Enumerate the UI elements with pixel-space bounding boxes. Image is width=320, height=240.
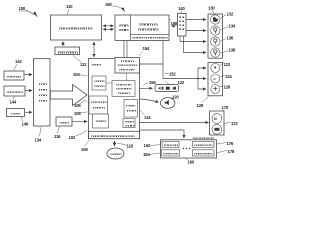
svg-text:100: 100 — [19, 6, 26, 11]
box: mem ctrl — [89, 96, 108, 114]
wire: display-dsp double arrow — [93, 42, 95, 57]
box: usb — [56, 117, 72, 126]
box: left input 2 — [4, 86, 25, 96]
svg-text:mn mnm mn: mn mnm mn — [193, 137, 215, 140]
label 172 — [225, 121, 239, 126]
svg-text:mn mn: mn mn — [119, 69, 136, 72]
label 110 — [66, 4, 73, 15]
svg-text:144: 144 — [10, 100, 17, 105]
label under tall box — [35, 127, 42, 143]
label 170 — [222, 105, 229, 112]
label 104 block arrow — [73, 72, 88, 77]
svg-text:110: 110 — [66, 4, 73, 9]
box: 2b — [124, 100, 138, 118]
svg-text:142: 142 — [15, 59, 22, 64]
wires hdmi-memory — [123, 41, 125, 58]
svg-text:112: 112 — [80, 62, 87, 67]
label 102 — [69, 131, 88, 141]
svg-text:mn mn: mn mn — [116, 84, 133, 87]
wire: strip-battery double arrow — [114, 141, 116, 146]
svg-text:114: 114 — [144, 115, 151, 120]
svg-text:mn mnm mn m: mn mnm mn m — [59, 27, 93, 31]
box: hdmi block — [115, 15, 169, 41]
svg-text:154: 154 — [143, 46, 150, 51]
labels 132-138 — [221, 12, 234, 19]
label 152 — [165, 72, 177, 77]
svg-text:172: 172 — [231, 121, 238, 126]
wire: a/d to audio sub — [106, 82, 112, 84]
box: left input 1 — [4, 71, 24, 80]
svg-text:150: 150 — [105, 2, 112, 7]
label 130 — [208, 6, 215, 14]
svg-text:136: 136 — [227, 36, 234, 41]
box: left input 3 — [7, 109, 25, 117]
svg-text:134: 134 — [229, 24, 236, 29]
svg-text:mnm n: mnm n — [139, 23, 158, 27]
svg-text:mnm mn mnm: mnm mn mnm — [132, 37, 169, 40]
box: external memory — [115, 58, 140, 74]
svg-text:140: 140 — [178, 6, 185, 11]
svg-text:164: 164 — [143, 152, 150, 157]
svg-text:mn: mn — [119, 24, 129, 28]
svg-text:170: 170 — [222, 105, 229, 110]
svg-text:132: 132 — [227, 12, 234, 17]
svg-text:mnm mn: mnm mn — [163, 153, 179, 156]
svg-text:160: 160 — [188, 160, 195, 165]
label 160 — [186, 158, 195, 164]
box: audio 2a — [112, 81, 135, 97]
label near media box top-right — [176, 80, 185, 87]
svg-text:152: 152 — [169, 72, 176, 77]
svg-text:126: 126 — [224, 85, 231, 90]
svg-text:120: 120 — [172, 95, 179, 100]
svg-text:mnm mn: mnm mn — [194, 144, 214, 147]
label 156 — [143, 80, 156, 86]
svg-text:178: 178 — [228, 149, 235, 154]
labels 162 164 — [144, 143, 161, 148]
wire: dsp to camera box C — [140, 122, 209, 124]
box: connector 140 — [178, 14, 187, 37]
box B: 3 circles — [208, 63, 223, 96]
label 146 — [21, 117, 29, 127]
svg-text:M: M — [214, 117, 217, 121]
wire: dsp to media box — [140, 87, 153, 89]
svg-text:mn mn: mn mn — [91, 101, 108, 104]
box: mcu — [93, 114, 109, 128]
svg-text:138: 138 — [229, 48, 236, 53]
svg-text:m mnm: m mnm — [116, 88, 133, 91]
box: DSP main — [89, 59, 140, 139]
svg-text:HI: HI — [213, 77, 216, 81]
label 154 memory — [139, 46, 150, 56]
svg-text:108: 108 — [81, 147, 88, 152]
svg-text:158: 158 — [171, 21, 178, 26]
svg-text:162: 162 — [144, 143, 151, 148]
labels 106 pair — [74, 100, 88, 108]
label 100 with pointer arrow — [19, 6, 38, 18]
box: touch panel — [55, 47, 80, 55]
label 140 — [178, 6, 185, 13]
box: 2c — [123, 119, 136, 128]
label 142 — [14, 59, 22, 71]
svg-text:116: 116 — [54, 134, 61, 139]
wires: display-hdmi — [103, 25, 114, 27]
labels box B — [220, 62, 231, 67]
svg-text:mn mnm: mn mnm — [7, 91, 25, 94]
label 158 — [170, 19, 178, 26]
label 116 — [54, 127, 61, 140]
box: display unit — [51, 15, 102, 40]
wire: display-touch double arrow — [62, 42, 64, 46]
label 128 — [197, 97, 209, 109]
wire: hdmi to connector — [172, 25, 177, 27]
box C: 2 circles — [210, 111, 225, 135]
svg-text:mn: mn — [119, 28, 129, 32]
svg-text:mn mn: mn mn — [7, 76, 23, 79]
svg-text:mn mnm: mn mnm — [58, 50, 79, 54]
svg-text:156: 156 — [149, 80, 156, 85]
bus down right of hdmi — [163, 41, 206, 79]
label 114 — [140, 110, 151, 120]
svg-text:102: 102 — [69, 135, 76, 140]
svg-text:146: 146 — [22, 122, 29, 127]
battery ellipse — [107, 148, 124, 159]
media buttons box — [155, 85, 179, 92]
wires: left boxes to switch — [25, 74, 33, 76]
svg-text:176: 176 — [227, 141, 234, 146]
svg-text:118: 118 — [127, 144, 134, 149]
svg-text:105: 105 — [74, 111, 81, 116]
svg-text:122: 122 — [224, 62, 231, 67]
svg-text:122: 122 — [178, 80, 185, 85]
wire: memory to right bus — [140, 63, 163, 65]
box A: connectors 4 circles — [208, 14, 223, 58]
svg-text:mnmn: mnmn — [110, 153, 122, 156]
box: A/V switch (tall) — [34, 59, 51, 126]
label 150 — [105, 2, 125, 12]
svg-text:134: 134 — [35, 138, 42, 143]
svg-text:mn mnm: mn mnm — [118, 64, 139, 67]
label 108 — [81, 140, 90, 152]
svg-text:mn mn: mn mn — [164, 144, 180, 147]
label 118 — [117, 144, 134, 149]
box: a/d — [92, 76, 106, 90]
labels 176 178 — [217, 141, 234, 146]
wires connector to box A — [186, 19, 206, 21]
svg-text:124: 124 — [225, 74, 232, 79]
group box outputs — [161, 140, 217, 158]
wire: dsp to speaker curved — [140, 99, 159, 102]
svg-text:mnm/mn mnmnm mn: mnm/mn mnmnm mn — [91, 134, 136, 138]
leader to media box top — [166, 82, 170, 85]
svg-text:mn mnm: mn mnm — [194, 153, 214, 156]
svg-text:128: 128 — [197, 103, 204, 108]
label 120 — [170, 95, 179, 100]
label 112 — [73, 56, 87, 68]
svg-text:mn mnm: mn mnm — [138, 28, 159, 32]
svg-text:104: 104 — [73, 72, 80, 77]
wire: memory to audio sub — [126, 73, 128, 81]
label 144 — [10, 97, 17, 105]
svg-text:130: 130 — [208, 6, 215, 11]
box: power strip — [89, 131, 140, 138]
speaker ellipse — [161, 98, 175, 109]
wire: dsp to output group — [140, 130, 184, 138]
wire: usb to dsp — [73, 121, 88, 123]
block arrow switch-dsp — [50, 85, 87, 106]
branches to box B — [198, 68, 206, 79]
